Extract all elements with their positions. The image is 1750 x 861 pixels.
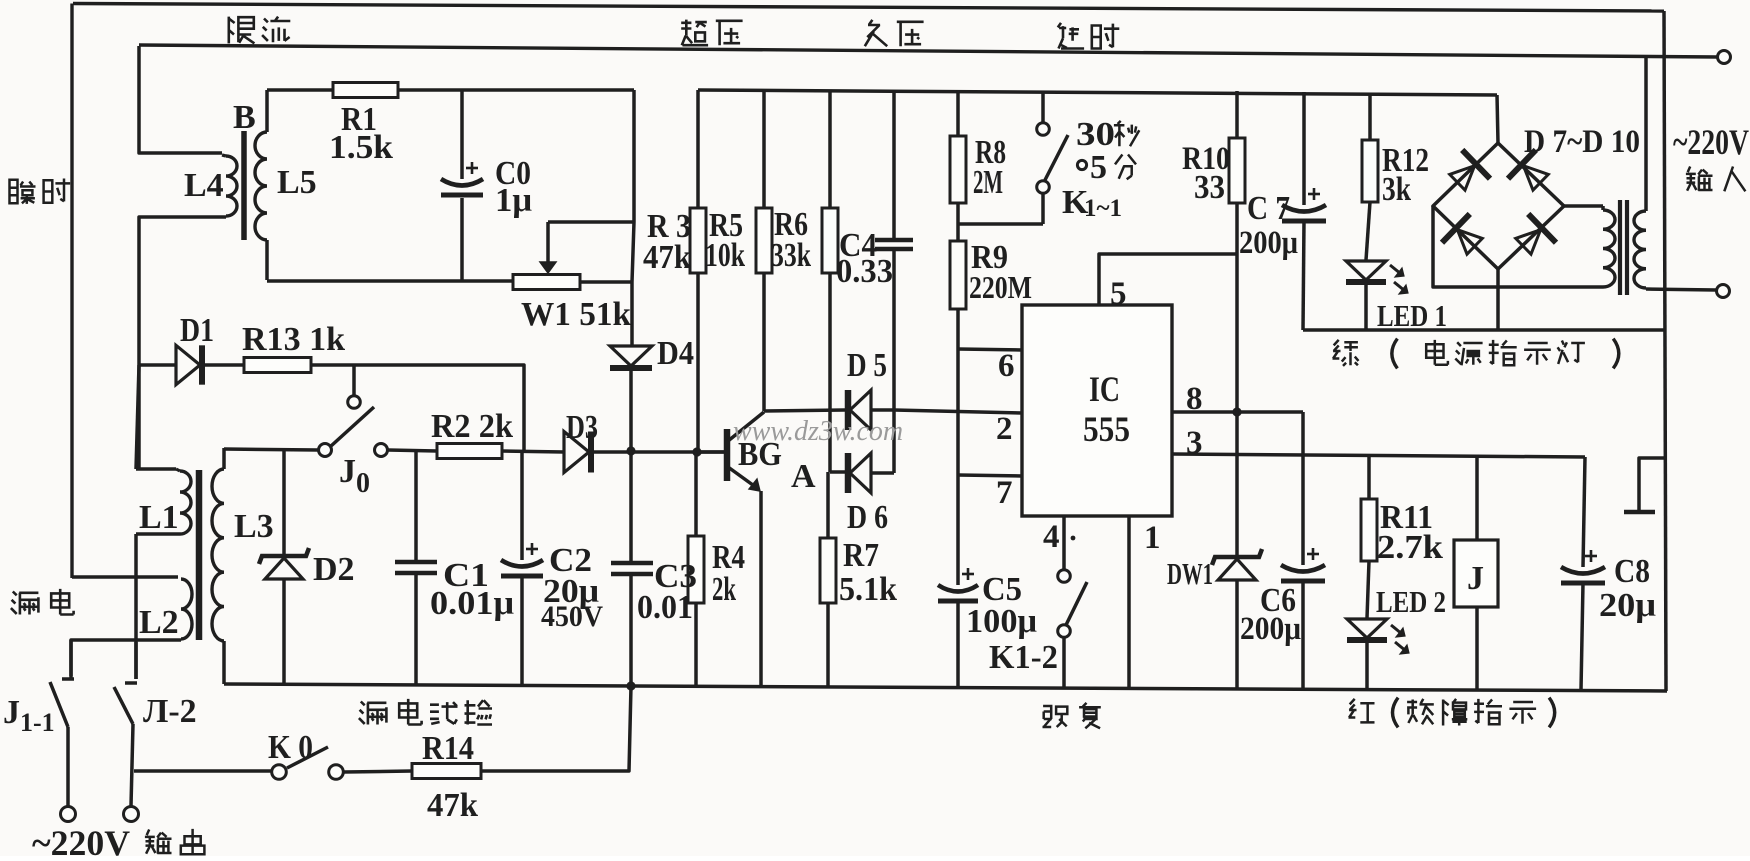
svg-text:R7: R7 [843,537,879,574]
wire right vertical of box (x=632) [632,90,634,345]
svg-text:5: 5 [1110,276,1127,312]
switch K0 [272,765,287,780]
potentiometer W1 [513,275,580,290]
capacitor C8 [1583,457,1585,567]
svg-text:D 6: D 6 [847,499,888,536]
svg-text:W1 51k: W1 51k [521,296,631,333]
svg-text:L1: L1 [139,499,179,536]
svg-text:L3: L3 [234,508,274,545]
resistor R10 [1235,91,1239,138]
node 瞬时 label [10,180,36,204]
svg-text:IC: IC [1089,369,1120,409]
resistor R2 [437,444,502,459]
wire L5 bottom row to W1 [267,279,513,283]
terminal input bottom [1717,285,1730,298]
pin 6 [958,349,1022,350]
wire D3 to node x=631 [593,450,631,454]
resistor R9 [956,203,960,241]
svg-text:R14: R14 [422,730,474,767]
node 限流 label [229,17,255,44]
resistor R3 [696,90,700,208]
svg-text:1: 1 [1144,520,1161,556]
terminal output left [61,807,76,822]
node 漏电 label [11,592,39,615]
node 强复 label [1043,705,1068,727]
wire R1 to corner [398,88,634,92]
terminal input top [1718,51,1731,64]
svg-text:D 5: D 5 [847,347,887,384]
wire main rail (current-limit/overvolt/undervolt/delay line) [139,45,1718,57]
svg-text:J: J [3,694,20,731]
wire from rail down to L4 [139,46,222,153]
resistor R14 [344,771,412,772]
capacitor C6 [1301,412,1305,565]
node 漏电试验 label [359,702,387,725]
resistor R7 [826,472,830,538]
svg-text:20μ: 20μ [1599,587,1656,624]
switch J0 [319,444,332,457]
relay contact J1-2 [134,642,138,679]
svg-text:D4: D4 [657,335,694,372]
svg-text:L2: L2 [139,604,179,641]
pin 8 [1172,410,1303,414]
svg-text:R13 1k: R13 1k [242,321,345,358]
svg-text:8: 8 [1186,381,1203,417]
svg-text:J: J [1467,560,1484,597]
pin 7 [958,475,1022,476]
svg-text:0.01: 0.01 [637,589,693,626]
svg-text:1μ: 1μ [495,182,532,219]
svg-text:L4: L4 [184,167,224,204]
wire trip line down (x=136) [136,365,139,469]
svg-text:5: 5 [1090,149,1107,186]
wire R14 to x631 node [481,686,631,771]
svg-text:555: 555 [1083,409,1130,449]
capacitor C1 [414,450,418,560]
svg-text:R2 2k: R2 2k [431,408,513,445]
capacitor C0 [460,90,464,179]
svg-text:D2: D2 [313,551,355,588]
pin 5 [1099,254,1237,305]
wire J0 to R2 [388,450,437,451]
diode D1 [139,363,176,367]
node 延时 label [1058,23,1084,49]
svg-text:LED 1: LED 1 [1377,298,1447,333]
inductor L4 [226,156,237,216]
switch K1-2 [1058,570,1071,583]
svg-text:C8: C8 [1614,553,1650,590]
pin 1 [1127,516,1131,689]
resistor R13 [204,363,244,367]
svg-text:www.dz3w.com: www.dz3w.com [733,416,903,447]
svg-text:LED 2: LED 2 [1376,584,1446,619]
pin 4 [1062,516,1066,570]
svg-text:4: 4 [1043,519,1060,555]
capacitor C5 [956,475,960,585]
wire bridge top feed [1497,95,1498,143]
wire pin2 row to IC [894,410,1022,413]
svg-text:7: 7 [996,475,1013,511]
transformer core B [241,131,247,240]
inductor transformer secondary [1601,206,1605,210]
node 红(故障指示) label [1349,699,1375,723]
junction pin8/R10 [1232,407,1241,416]
wire bridge right vertex to secondary [1564,204,1603,208]
wire top border [73,4,1664,12]
svg-text:220M: 220M [969,269,1032,305]
svg-text:200μ: 200μ [1239,225,1298,261]
svg-text:D3: D3 [566,409,598,446]
wire left border [70,4,73,579]
wire L4 bottom to vertical [139,217,226,469]
wire L5 top to R1 [267,88,333,92]
inductor transformer primary [1644,58,1648,211]
svg-text:47k: 47k [427,787,478,824]
svg-text:1-1: 1-1 [20,708,55,737]
inductor L1 [136,467,176,471]
capacitor C2 [520,452,524,560]
zener D2 [282,448,286,554]
svg-text:1.5k: 1.5k [329,129,393,166]
svg-text:6: 6 [998,348,1015,384]
capacitor C4 [892,91,896,238]
op-amp U1 IC555 body [1022,305,1172,516]
svg-text:47k: 47k [643,239,691,276]
svg-text:K 0: K 0 [268,729,313,766]
svg-text:0.33: 0.33 [836,253,893,290]
wire D6 anode row [830,470,845,474]
svg-text:C 7: C 7 [1247,190,1290,227]
svg-text:2: 2 [996,411,1013,447]
node 超压 label [681,20,708,46]
wire right border (x=1665) [1664,11,1666,691]
svg-text:Л-2: Л-2 [143,693,197,730]
diode bridge D7~D10 [1433,143,1564,269]
wire collector row to D5 [764,410,845,411]
wire W1 wiper to right vertical [548,220,633,224]
wire LED1 bottom rail (y=330) [1303,328,1666,332]
inductor L2 [72,575,178,579]
resistor R8 [956,90,960,136]
svg-text:K1-2: K1-2 [989,639,1058,676]
svg-text:200μ: 200μ [1240,611,1301,647]
svg-text:D1: D1 [180,312,214,349]
capacitor C7 [1302,92,1306,205]
diode D6 [845,453,852,493]
svg-text:B: B [233,99,256,136]
inductor L5 [265,90,269,132]
wire D4 to node [629,370,633,451]
svg-text:~220V: ~220V [32,823,130,856]
wire bottom rail [224,684,1667,691]
relay J [1475,456,1479,540]
aux contact above J0 [352,365,356,396]
ground [1639,458,1666,510]
resistor R1 [333,83,398,98]
svg-text:2k: 2k [712,571,736,608]
switch K1-1 (30s/5min selector) [1041,91,1045,123]
junction at R3/R4 [692,447,701,456]
svg-text:33k: 33k [771,237,811,274]
svg-text:1~1: 1~1 [1084,195,1122,222]
svg-text:450V: 450V [541,600,603,633]
svg-text:5.1k: 5.1k [839,571,897,608]
pin 3 [1172,454,1585,457]
diode D3 [564,432,589,473]
resistor R12 [1368,95,1372,140]
wire D5 to C4/D6 node [871,408,894,412]
resistor R6 [828,91,832,208]
resistor R11 [1367,455,1371,499]
svg-text:2M: 2M [973,164,1003,201]
junction bottom x631 [626,681,635,690]
wire node to R3/R4 junction [631,450,727,454]
wire primary bottom to terminal [1646,289,1716,290]
LED2 [1347,619,1387,638]
wire R13 to bypass corner [311,365,524,451]
transformer core bars [1618,200,1622,295]
wire D5/D6 connector (x=894) [892,410,896,473]
svg-text:~220V: ~220V [1673,122,1749,162]
wire output to K0 [134,769,271,773]
svg-text:D 7~D 10: D 7~D 10 [1524,124,1640,160]
wire bridge bottom vertex down [1496,269,1500,330]
svg-text:L5: L5 [277,164,317,201]
relay contact J1-1 [69,640,73,676]
wire L3 top to J0 [224,449,318,450]
svg-text:DW1: DW1 [1167,556,1213,591]
svg-text:J: J [339,453,356,490]
wire overvolt rail (y=90) [698,90,1497,95]
zener DW1 [1235,412,1239,555]
wire bridge left vertex down and to secondary bottom [1433,206,1603,287]
svg-text:3: 3 [1186,425,1203,461]
junction at x631 [626,446,635,455]
wire W1 right end [580,280,633,284]
terminal output right [124,807,139,822]
svg-text:A: A [791,458,816,495]
wire R2 to D3 [502,451,564,452]
diode D5 [845,390,852,430]
transistor BG [724,429,731,481]
svg-text:30: 30 [1076,116,1115,153]
svg-text:10k: 10k [705,237,745,274]
svg-text:0.01μ: 0.01μ [430,585,514,622]
svg-text:0: 0 [356,468,370,499]
svg-text:2.7k: 2.7k [1377,529,1443,566]
diode D4 [610,346,652,366]
resistor R4 [694,452,698,536]
svg-text:3k: 3k [1382,171,1411,208]
svg-text:100μ: 100μ [966,603,1037,640]
capacitor C3 [611,561,653,566]
svg-text:33: 33 [1194,169,1225,206]
node 绿(电源指示灯) label [1333,340,1359,366]
inductor L3 [222,448,226,469]
LED1 [1346,261,1386,280]
node 欠压 label [865,20,887,46]
resistor R5 [762,90,766,208]
transformer core (leakage sensor) [196,470,203,640]
